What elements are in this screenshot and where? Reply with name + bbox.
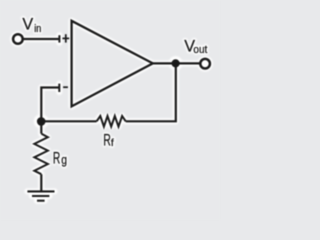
ground — [27, 191, 54, 200]
minus label — [63, 86, 68, 88]
pin tick inverting input — [58, 84, 60, 92]
plus label — [62, 34, 69, 42]
label Rg — [53, 149, 67, 167]
node junction dot — [37, 117, 46, 126]
resistor Rf — [97, 116, 126, 127]
wire inverting input — [41, 88, 59, 122]
svg-text:R: R — [53, 149, 60, 167]
label Rf — [103, 130, 114, 149]
label Vin — [22, 15, 41, 35]
terminal Vout — [200, 59, 210, 69]
resistor Rg — [34, 134, 48, 175]
wire output — [153, 62, 201, 64]
svg-text:in: in — [34, 23, 41, 35]
pin tick non-inverting input — [58, 35, 60, 42]
svg-text:f: f — [111, 138, 114, 149]
wire feedback from output — [126, 63, 176, 121]
svg-text:g: g — [61, 153, 67, 167]
terminal Vin — [13, 34, 23, 44]
wire Vin to non-inverting input — [23, 38, 60, 40]
label Vout — [184, 37, 207, 56]
wire Rf to node — [41, 120, 96, 122]
svg-text:R: R — [103, 130, 111, 149]
wire Rg to ground — [40, 174, 42, 191]
junction dot output — [172, 59, 180, 67]
op-amp U1 — [72, 21, 153, 107]
svg-text:V: V — [22, 15, 33, 33]
svg-text:out: out — [193, 43, 207, 56]
wire node to Rg — [40, 121, 42, 133]
